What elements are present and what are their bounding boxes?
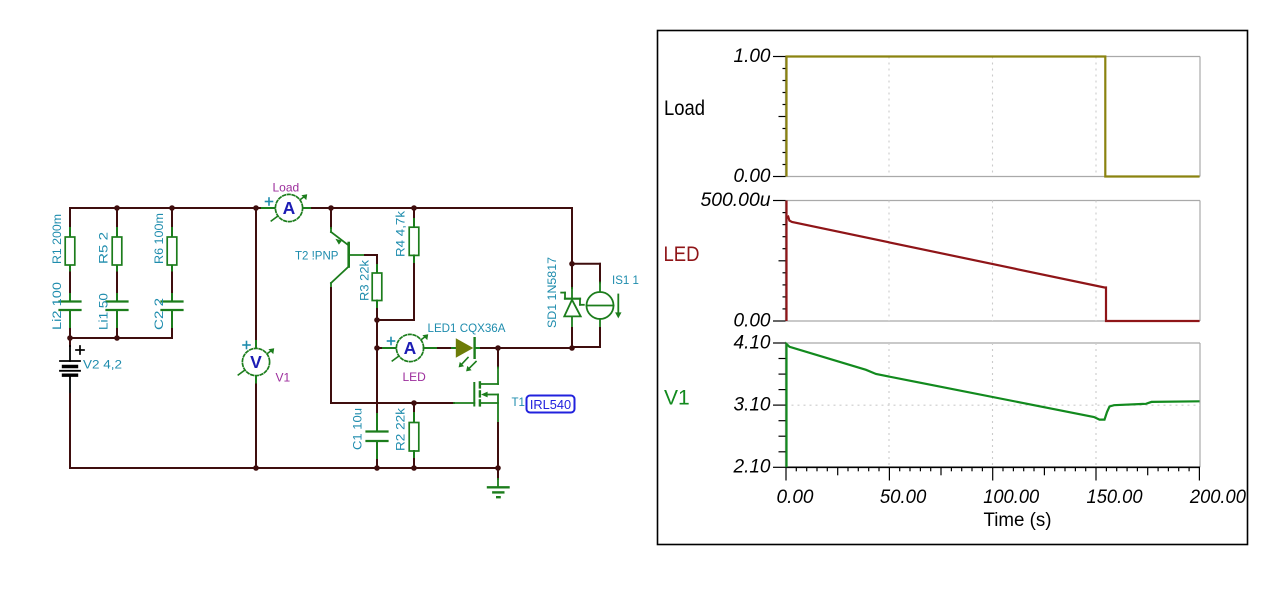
wire R5 column [116,208,118,228]
svg-text:R1 200m: R1 200m [52,214,64,264]
node junction Li1 bottom [114,335,120,341]
svg-text:T1: T1 [512,397,525,409]
svg-text:Load: Load [664,97,705,120]
svg-text:R2 22k: R2 22k [396,408,408,451]
svg-text:LED: LED [403,370,427,384]
svg-text:LED1 CQX36A: LED1 CQX36A [428,323,506,335]
wire T2 collector down to gate row [330,288,332,403]
node junction top rail R6 [169,205,175,211]
wire V1 column [255,208,257,341]
svg-text:100.00: 100.00 [983,486,1039,508]
wire bottom rail [70,467,498,469]
wire R3 bottom [376,301,378,310]
transistor T2 !PNP [295,208,365,288]
svg-text:V1: V1 [276,371,291,385]
node junction Li2 bottom [67,335,73,341]
svg-text:500.00u: 500.00u [701,189,771,211]
svg-text:2.10: 2.10 [733,456,771,478]
svg-text:R3 22k: R3 22k [360,260,372,301]
svg-text:C1 10u: C1 10u [353,408,365,450]
voltmeter V1 [238,342,274,376]
node junction top rail T2 [328,205,334,211]
svg-text:V: V [250,352,262,372]
svg-text:0.00: 0.00 [734,165,771,187]
wire R4 bottom link [377,319,414,321]
node junction SD1/IS1 top [569,261,575,267]
svg-text:SD1 1N5817: SD1 1N5817 [547,257,559,328]
node junction C1 bottom [374,465,380,471]
ground [488,468,509,497]
wire T2 base to R3 [365,254,377,256]
node junction LED ammeter left [374,345,380,351]
resistor R3 22k [372,273,382,301]
svg-text:Time (s): Time (s) [984,509,1052,531]
svg-text:A: A [283,198,296,218]
node junction top rail V1 [253,205,259,211]
svg-text:1.00: 1.00 [734,45,771,67]
svg-text:IRL540: IRL540 [530,397,571,412]
capacitor Li1 50 [107,300,128,302]
battery V2 4,2 [60,338,122,394]
capacitor C2 2 [162,300,183,302]
svg-text:V2 4,2: V2 4,2 [83,360,122,372]
ammeter Load [266,194,308,221]
wire battery to bottom rail [69,394,71,468]
svg-text:Load: Load [273,181,300,195]
wire mid rail under capacitors [70,337,172,339]
svg-text:V1: V1 [664,387,690,410]
svg-text:R5 2: R5 2 [99,232,111,264]
ammeter LED [388,334,429,361]
svg-text:0.00: 0.00 [777,486,814,508]
svg-text:T2 !PNP: T2 !PNP [295,251,339,263]
node junction R2 top [411,400,417,406]
resistor R1 200m [65,237,75,265]
trace V1 [787,344,1200,467]
svg-text:A: A [404,338,417,358]
wire top rail [70,207,262,209]
node junction V1 bottom [253,465,259,471]
plot axes ticks [773,57,1200,481]
svg-text:4.10: 4.10 [734,331,771,353]
plot gray borders [786,57,1201,468]
node junction R3/R4 [374,317,380,323]
svg-text:50.00: 50.00 [880,486,927,508]
wire to LED ammeter [377,347,383,349]
trace Load [787,57,1200,177]
trace LED [787,201,1200,322]
node junction top rail R5 [114,205,120,211]
wire MOSFET source to rail [497,423,499,468]
svg-text:3.10: 3.10 [734,394,771,416]
plot dashed gridlines [786,57,1201,468]
wire left branch R1/Li2 column [69,208,71,228]
svg-text:R6 100m: R6 100m [154,213,166,264]
current source IS1 1 [587,275,639,328]
node junction R2 bottom [411,465,417,471]
resistor R4 4,7k [413,208,415,219]
label IRL540 box [527,396,575,413]
svg-text:Li2 100: Li2 100 [52,282,64,330]
transistor T1 IRL540 MOSFET [454,348,525,423]
svg-text:150.00: 150.00 [1087,486,1143,508]
capacitor C1 10u [376,414,378,432]
svg-text:C2 2: C2 2 [154,298,166,330]
wire ammeter to LED1 [424,347,438,349]
plot panel frame [658,31,1248,545]
wire SD1 branch vertical [571,208,573,288]
capacitor Li2 100 [60,300,81,302]
node junction top rail R4 [411,205,417,211]
node junction source/ground [495,465,501,471]
node junction MOSFET drain [495,345,501,351]
diode SD1 1N5817 schottky [547,257,584,328]
svg-text:LED: LED [664,243,700,266]
svg-text:200.00: 200.00 [1189,486,1246,508]
resistor R2 22k [413,403,415,413]
svg-text:IS1 1: IS1 1 [612,275,639,287]
diode LED1 CQX36A [428,323,506,371]
svg-text:0.00: 0.00 [734,309,771,331]
svg-text:R4 4,7k: R4 4,7k [396,211,408,257]
node junction SD1 bottom [569,345,575,351]
wire R6 column [171,208,173,228]
wire IS1 branch [572,263,600,265]
resistor R5 2 [112,237,122,265]
svg-text:Li1 50: Li1 50 [99,293,111,330]
resistor R6 100m [167,237,177,265]
wire LED1 to SD1 node [481,347,572,349]
